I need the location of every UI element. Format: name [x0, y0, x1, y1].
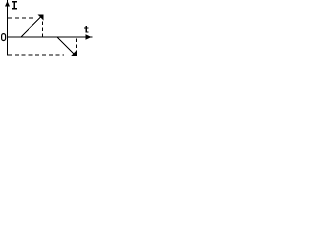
dashed trough level line: [8, 54, 64, 56]
label 0 (origin): [2, 34, 6, 41]
label I: [12, 1, 17, 9]
background: [0, 0, 93, 65]
I axis arrowhead: [5, 1, 10, 7]
I axis (vertical): [7, 0, 9, 56]
t axis arrowhead: [86, 34, 92, 40]
t axis (horizontal): [7, 36, 93, 38]
dashed vertical at trough time: [76, 39, 78, 52]
rising ramp: [21, 17, 41, 38]
label t: [84, 26, 89, 33]
dashed vertical at peak time: [42, 22, 44, 37]
dashed peak level line: [8, 17, 34, 19]
falling ramp arrowhead (SE): [71, 50, 77, 56]
falling ramp: [57, 37, 74, 54]
rising ramp arrowhead (NE): [38, 15, 44, 21]
